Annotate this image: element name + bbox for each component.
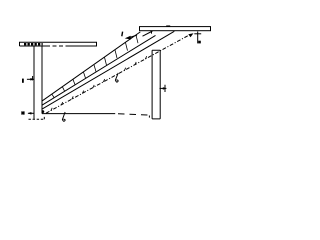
stair band upper line xyxy=(42,35,156,105)
junction blob at stair foot xyxy=(42,110,45,113)
bottom-left arrow to post xyxy=(28,112,34,114)
ticks along system axis xyxy=(51,56,147,111)
stair structural schematic xyxy=(0,0,217,132)
stair top connection to slab xyxy=(143,31,153,36)
right post wall xyxy=(152,50,160,119)
upper floor slab (top right) xyxy=(140,27,211,31)
right post arrow mark xyxy=(160,87,167,89)
baseline dashed part xyxy=(118,114,152,116)
label b under baseline xyxy=(62,112,65,121)
top tick glyph xyxy=(121,32,124,37)
dashed footing under left post xyxy=(29,115,45,119)
bottom-left label blob xyxy=(22,111,25,114)
tick below upper slab left xyxy=(151,31,153,34)
stair band lower line xyxy=(43,31,175,109)
hatch ticks on landing slab xyxy=(24,43,43,45)
support foot blob xyxy=(198,41,201,44)
top arrow near slab corner xyxy=(130,35,137,37)
left landing slab xyxy=(20,42,97,46)
baseline xyxy=(42,113,115,115)
axis arrowhead into support xyxy=(188,33,193,37)
dash-dot system axis xyxy=(46,34,191,113)
tick above upper slab xyxy=(166,25,170,27)
support symbol T under upper slab xyxy=(194,32,201,44)
mid-left arrow to post xyxy=(27,78,34,80)
step rungs on stair band xyxy=(52,35,138,97)
dashed part of landing slab bottom edge xyxy=(46,45,66,47)
label l on axis xyxy=(115,73,118,82)
mid-left label blob xyxy=(22,79,24,83)
left post wall xyxy=(33,46,35,119)
stair nosing line (top) xyxy=(42,32,140,101)
